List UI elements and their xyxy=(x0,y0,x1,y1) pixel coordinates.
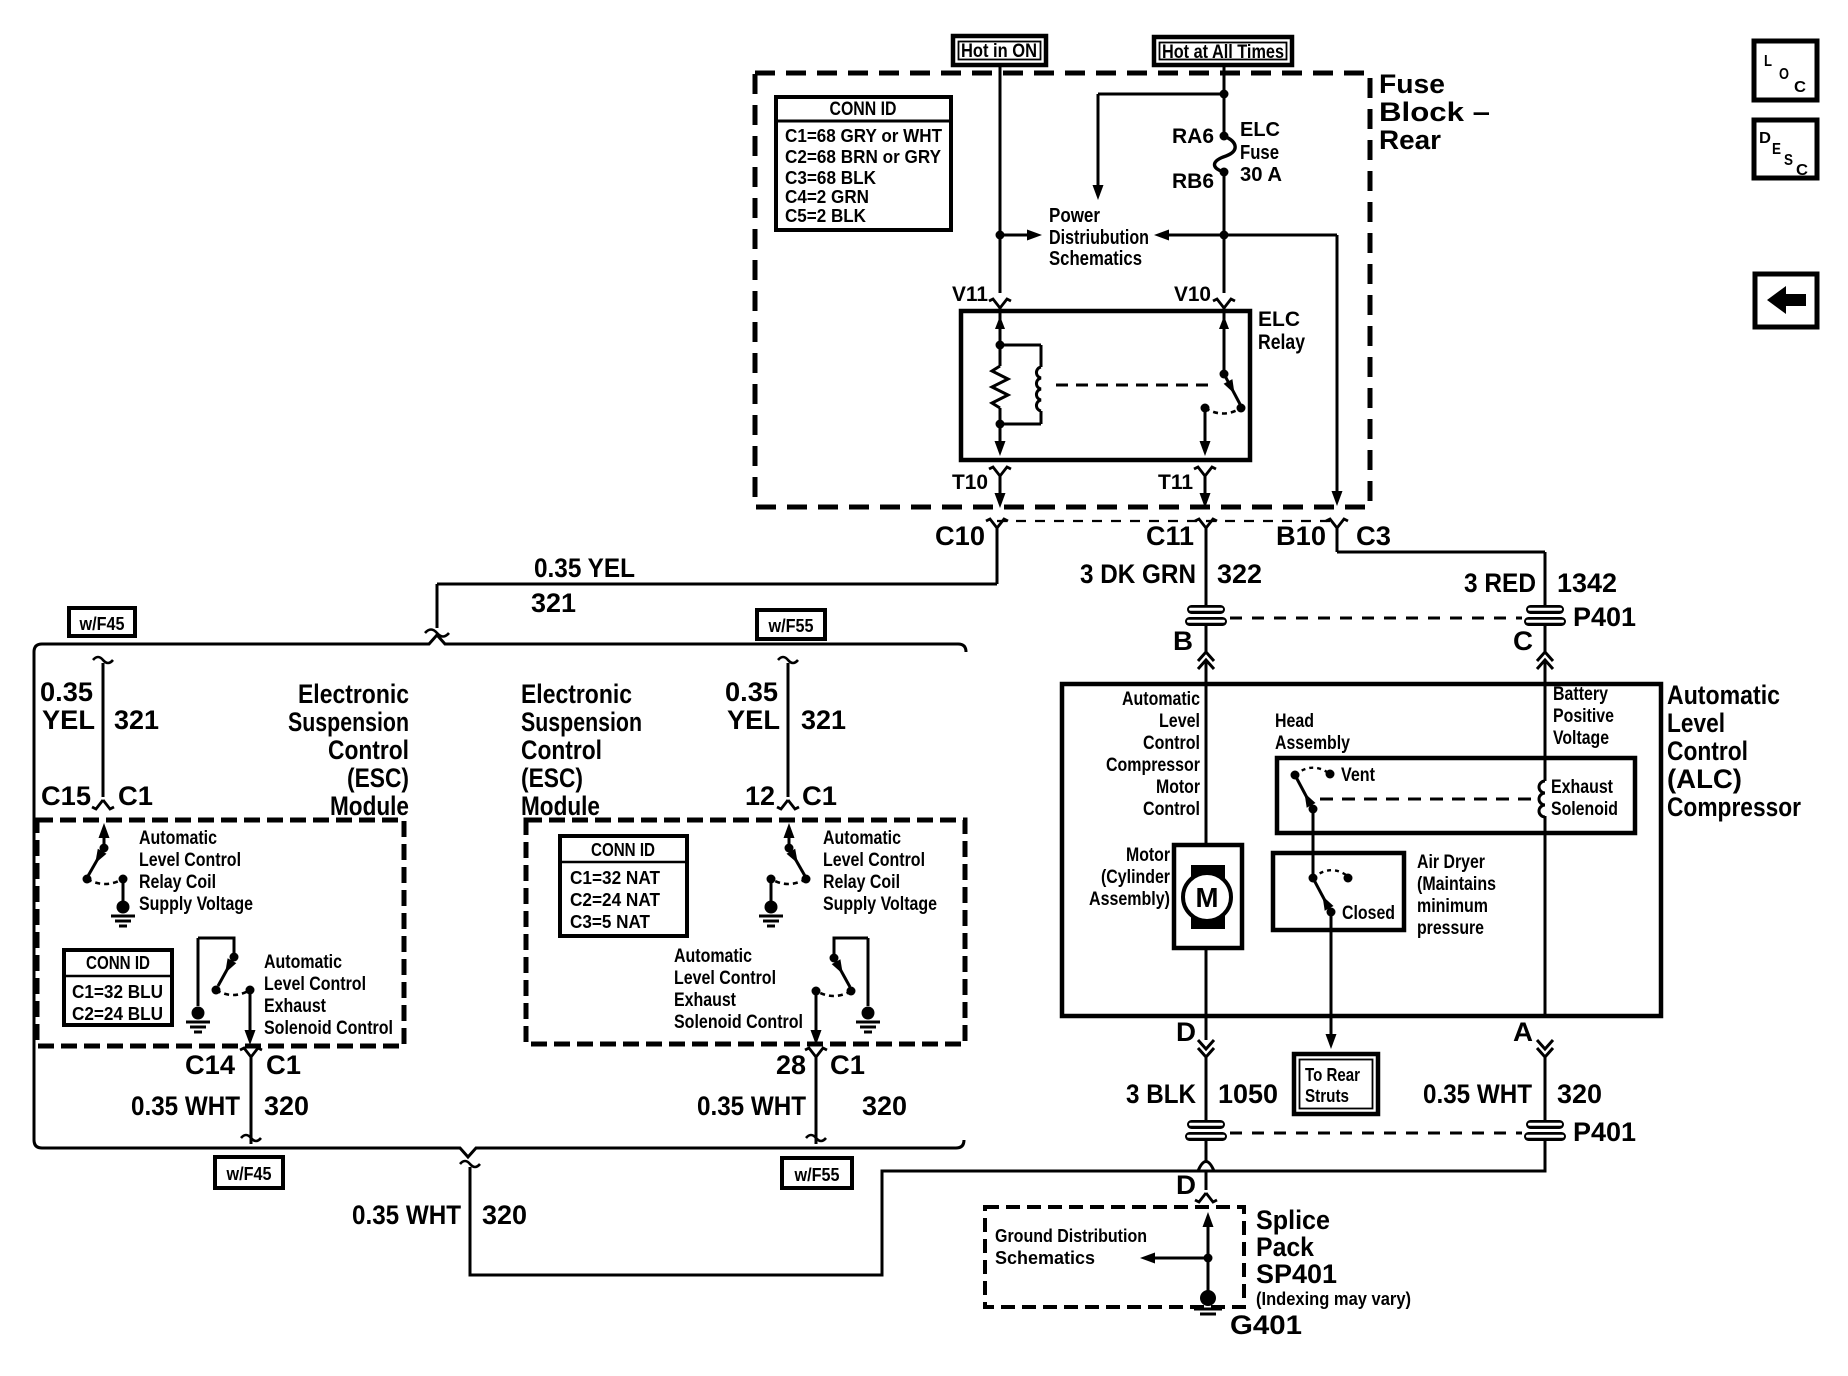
svg-text:C3=5 NAT: C3=5 NAT xyxy=(570,912,650,932)
Hot at All Times box xyxy=(1154,37,1292,65)
svg-text:Compressor: Compressor xyxy=(1667,792,1801,822)
svg-text:SP401: SP401 xyxy=(1256,1259,1337,1289)
svg-text:C: C xyxy=(1794,79,1806,96)
svg-text:C: C xyxy=(1513,626,1533,656)
svg-text:Fuse: Fuse xyxy=(1379,69,1445,99)
switch ALC relay coil supply voltage right module xyxy=(788,836,791,848)
label w/F45 top xyxy=(69,608,135,636)
svg-text:C1=32 BLU: C1=32 BLU xyxy=(72,982,163,1002)
svg-text:w/F45: w/F45 xyxy=(226,1164,272,1184)
wire arrow left into Distriubution xyxy=(1166,234,1224,237)
svg-text:w/F55: w/F55 xyxy=(768,616,814,636)
svg-text:Schematics: Schematics xyxy=(1049,248,1142,270)
svg-text:Level Control: Level Control xyxy=(139,850,241,871)
svg-text:Battery: Battery xyxy=(1553,684,1608,705)
vent contact xyxy=(1326,770,1335,779)
svg-text:3 DK GRN: 3 DK GRN xyxy=(1080,559,1196,589)
svg-text:3 RED: 3 RED xyxy=(1464,568,1536,598)
harness bracket around ESC modules w/F45 w/F55 xyxy=(34,635,966,1157)
inline connector P401 lower right half xyxy=(1526,1120,1564,1129)
svg-text:L: L xyxy=(1764,53,1772,70)
wire 0.35 YEL 321 to left module xyxy=(93,657,113,663)
wire A side down to ground bus xyxy=(1544,1140,1547,1171)
svg-text:P401: P401 xyxy=(1573,1117,1636,1147)
svg-text:P401: P401 xyxy=(1573,602,1636,632)
svg-text:minimum: minimum xyxy=(1417,896,1488,917)
svg-text:Exhaust: Exhaust xyxy=(674,990,737,1011)
svg-text:30 A: 30 A xyxy=(1240,164,1282,186)
wire V11 into relay coil xyxy=(999,308,1002,345)
vent switch dashed travel arc xyxy=(1295,768,1327,775)
svg-text:Pack: Pack xyxy=(1256,1232,1315,1262)
air dryer box xyxy=(1273,853,1404,930)
wire V10 into relay switch common xyxy=(1223,308,1226,374)
svg-text:Motor: Motor xyxy=(1126,845,1171,866)
svg-text:To Rear: To Rear xyxy=(1305,1065,1360,1085)
svg-text:Head: Head xyxy=(1275,711,1314,732)
svg-text:Supply Voltage: Supply Voltage xyxy=(823,894,937,915)
svg-text:CONN ID: CONN ID xyxy=(830,99,897,120)
svg-text:O: O xyxy=(1779,66,1789,83)
switch ALC exhaust solenoid control right module xyxy=(834,938,868,956)
svg-text:Level: Level xyxy=(1667,708,1725,738)
svg-text:Electronic: Electronic xyxy=(521,679,632,709)
wire arrow to ground distribution text xyxy=(1152,1257,1208,1260)
svg-text:321: 321 xyxy=(531,588,576,618)
svg-text:C15: C15 xyxy=(41,781,91,811)
svg-text:Suspension: Suspension xyxy=(521,707,642,737)
svg-text:321: 321 xyxy=(114,705,159,735)
svg-text:Automatic: Automatic xyxy=(674,946,752,967)
svg-text:YEL: YEL xyxy=(42,705,95,735)
svg-text:Electronic: Electronic xyxy=(298,679,409,709)
svg-text:B10: B10 xyxy=(1276,521,1326,551)
svg-text:Solenoid: Solenoid xyxy=(1551,799,1618,820)
dashed link to exhaust solenoid xyxy=(1320,798,1532,801)
svg-text:T10: T10 xyxy=(952,471,988,494)
svg-text:Assembly): Assembly) xyxy=(1089,889,1170,910)
svg-text:1342: 1342 xyxy=(1557,568,1617,598)
air dryer dashed travel arc xyxy=(1313,870,1346,878)
label w/F45 bottom xyxy=(215,1157,283,1188)
svg-text:M: M xyxy=(1196,882,1219,913)
svg-text:Rear: Rear xyxy=(1379,125,1441,155)
relay ELC Relay box xyxy=(961,311,1250,460)
svg-text:YEL: YEL xyxy=(727,705,780,735)
svg-text:C3=68 BLK: C3=68 BLK xyxy=(785,168,876,188)
fuse block dashed enclosure Fuse Block - Rear xyxy=(755,73,1370,507)
wire D side down with crossover hop xyxy=(1205,1140,1208,1162)
coil bottom junction xyxy=(996,420,1005,429)
svg-text:0.35 WHT: 0.35 WHT xyxy=(697,1091,806,1121)
svg-text:1050: 1050 xyxy=(1218,1079,1278,1109)
inline connector P401 upper right half xyxy=(1526,605,1564,614)
coil top junction xyxy=(996,341,1005,350)
svg-text:D: D xyxy=(1759,130,1771,147)
vent switch pivot xyxy=(1291,771,1300,780)
CONN ID box right module xyxy=(560,836,687,936)
svg-text:S: S xyxy=(1784,152,1793,169)
wire motor to D terminal xyxy=(1205,948,1208,1040)
svg-text:Level Control: Level Control xyxy=(674,968,776,989)
svg-text:B: B xyxy=(1173,626,1193,656)
svg-text:0.35 WHT: 0.35 WHT xyxy=(131,1091,240,1121)
svg-text:Voltage: Voltage xyxy=(1553,728,1609,749)
svg-text:Air Dryer: Air Dryer xyxy=(1417,852,1485,873)
svg-text:Level Control: Level Control xyxy=(823,850,925,871)
relay switch pivot xyxy=(1220,370,1229,379)
svg-text:321: 321 xyxy=(801,705,846,735)
CONN ID box left module xyxy=(64,950,172,1025)
svg-text:V10: V10 xyxy=(1174,283,1211,306)
inline connector P401 upper left half xyxy=(1187,605,1225,614)
air dryer switch pivot xyxy=(1309,874,1318,883)
svg-text:C2=24 BLU: C2=24 BLU xyxy=(72,1004,163,1024)
wire Hot in ON down to V11 xyxy=(999,65,1002,293)
switch ALC exhaust solenoid control left module xyxy=(198,938,234,955)
wire into splice pack with up arrow xyxy=(1207,1222,1210,1258)
svg-text:Assembly: Assembly xyxy=(1275,733,1350,754)
svg-text:Solenoid Control: Solenoid Control xyxy=(674,1012,803,1033)
svg-text:Struts: Struts xyxy=(1305,1086,1349,1106)
wire to ground left module lower xyxy=(197,938,200,1006)
wire B10 to C terminal via P401 xyxy=(1336,528,1339,552)
svg-text:320: 320 xyxy=(264,1091,309,1121)
svg-text:Motor: Motor xyxy=(1156,777,1201,798)
vent switch arm xyxy=(1296,777,1313,809)
svg-text:0.35 WHT: 0.35 WHT xyxy=(352,1200,461,1230)
svg-text:CONN ID: CONN ID xyxy=(86,953,150,973)
svg-text:Automatic: Automatic xyxy=(823,828,901,849)
svg-text:RB6: RB6 xyxy=(1172,170,1214,193)
icon LOC box xyxy=(1754,41,1817,100)
switch ALC relay coil supply voltage left module xyxy=(103,836,106,848)
svg-text:Control: Control xyxy=(1143,799,1200,820)
wire to ground right module lower xyxy=(867,938,870,1006)
splice pack ground distribution dashed box xyxy=(985,1207,1244,1307)
wire 0.35 WHT 320 common ground run xyxy=(460,1161,480,1167)
svg-text:Closed: Closed xyxy=(1342,903,1395,924)
svg-text:T11: T11 xyxy=(1158,471,1193,494)
svg-text:w/F55: w/F55 xyxy=(794,1165,840,1185)
air dryer switch arm to Closed contact xyxy=(1314,880,1331,912)
svg-text:C1: C1 xyxy=(118,781,153,811)
svg-text:D: D xyxy=(1176,1017,1196,1047)
wire right to B10 drop xyxy=(1224,234,1337,237)
svg-text:C1: C1 xyxy=(802,781,837,811)
svg-text:C1: C1 xyxy=(830,1050,865,1080)
svg-text:Level Control: Level Control xyxy=(264,974,366,995)
svg-text:C3: C3 xyxy=(1356,521,1391,551)
To Rear Struts box xyxy=(1294,1054,1378,1114)
inline connector P401 lower left half xyxy=(1187,1120,1225,1129)
svg-text:12: 12 xyxy=(745,781,775,811)
svg-text:RA6: RA6 xyxy=(1172,125,1214,148)
dashed link P401 bottom xyxy=(1230,1132,1522,1135)
inductor winding parallel branch xyxy=(1000,344,1041,347)
wire 0.35 YEL 321 to right module xyxy=(778,657,798,663)
left ESC module dashed box xyxy=(37,820,404,1046)
svg-text:Module: Module xyxy=(330,791,409,821)
svg-text:C4=2 GRN: C4=2 GRN xyxy=(785,187,869,207)
svg-text:0.35: 0.35 xyxy=(40,677,93,707)
svg-text:Vent: Vent xyxy=(1341,765,1376,786)
svg-text:Solenoid Control: Solenoid Control xyxy=(264,1018,393,1039)
svg-text:C1=68 GRY or WHT: C1=68 GRY or WHT xyxy=(785,126,942,146)
junction below fuse xyxy=(1220,231,1229,240)
wire 0.35 YEL 321 horizontal run xyxy=(437,583,997,586)
svg-text:Supply Voltage: Supply Voltage xyxy=(139,894,253,915)
svg-text:Automatic: Automatic xyxy=(1667,680,1780,710)
svg-text:ELC: ELC xyxy=(1240,119,1280,141)
svg-text:Ground Distribution: Ground Distribution xyxy=(995,1226,1147,1246)
svg-text:C2=24 NAT: C2=24 NAT xyxy=(570,890,660,910)
svg-text:A: A xyxy=(1513,1017,1533,1047)
svg-text:3 BLK: 3 BLK xyxy=(1126,1079,1196,1109)
svg-text:Splice: Splice xyxy=(1256,1205,1330,1235)
icon DESC box xyxy=(1754,120,1817,178)
svg-text:Suspension: Suspension xyxy=(288,707,409,737)
svg-text:Relay Coil: Relay Coil xyxy=(139,872,216,893)
svg-text:Schematics: Schematics xyxy=(995,1248,1095,1268)
relay switch contact xyxy=(1201,404,1210,413)
svg-text:E: E xyxy=(1772,141,1781,158)
svg-text:320: 320 xyxy=(482,1200,527,1230)
svg-text:Relay: Relay xyxy=(1258,331,1305,354)
svg-text:C5=2 BLK: C5=2 BLK xyxy=(785,206,866,226)
svg-text:0.35 WHT: 0.35 WHT xyxy=(1423,1079,1532,1109)
svg-text:Control: Control xyxy=(1143,733,1200,754)
resistor element of relay coil xyxy=(999,345,1002,366)
harness break at bracket top center xyxy=(425,630,449,637)
fuse ELC Fuse 30 A with RA6 RB6 terminals xyxy=(1220,132,1229,141)
component Automatic Level Control ALC Compressor box xyxy=(1062,684,1661,1016)
svg-text:C1: C1 xyxy=(266,1050,301,1080)
svg-text:Positive: Positive xyxy=(1553,706,1614,727)
ground inside left module upper xyxy=(117,901,130,914)
dashed link P401 top xyxy=(1230,617,1522,620)
Hot in ON box xyxy=(953,36,1046,65)
wire air dryer to rear struts xyxy=(1330,912,1333,1034)
svg-text:Exhaust: Exhaust xyxy=(264,996,327,1017)
svg-text:320: 320 xyxy=(862,1091,907,1121)
relay switch arm xyxy=(1224,374,1241,406)
svg-text:0.35 YEL: 0.35 YEL xyxy=(534,553,635,583)
svg-text:C: C xyxy=(1796,162,1808,179)
dashed actuation link relay xyxy=(1056,384,1214,387)
svg-text:Block –: Block – xyxy=(1379,97,1490,127)
svg-text:G401: G401 xyxy=(1230,1310,1302,1340)
ground G401 xyxy=(1200,1290,1216,1306)
svg-text:Hot in ON: Hot in ON xyxy=(961,41,1037,62)
svg-text:Relay Coil: Relay Coil xyxy=(823,872,900,893)
wire to G401 xyxy=(1207,1258,1210,1291)
wire battery feed through compressor xyxy=(1544,816,1547,1016)
svg-text:Control: Control xyxy=(328,735,409,765)
wire RB6 down to V10 xyxy=(1223,172,1226,293)
svg-text:C2=68 BRN or GRY: C2=68 BRN or GRY xyxy=(785,147,941,167)
right ESC module dashed box xyxy=(526,820,965,1044)
svg-text:D: D xyxy=(1176,1170,1196,1200)
solenoid Exhaust Solenoid coil xyxy=(1539,781,1545,817)
svg-text:Fuse: Fuse xyxy=(1240,142,1279,164)
svg-text:C11: C11 xyxy=(1146,521,1194,551)
svg-text:Hot at All Times: Hot at All Times xyxy=(1162,42,1284,63)
wire vent arm to air dryer switch xyxy=(1312,809,1315,878)
svg-text:Power: Power xyxy=(1049,205,1100,227)
svg-text:Control: Control xyxy=(521,735,602,765)
svg-text:CONN ID: CONN ID xyxy=(591,840,655,860)
wire branch left to power distribution down-arrow xyxy=(1098,93,1224,96)
svg-text:0.35: 0.35 xyxy=(725,677,778,707)
wire contact to T11 with arrow xyxy=(1204,408,1207,445)
junction at top of fused feed xyxy=(1220,90,1229,99)
label w/F55 top xyxy=(757,610,825,639)
svg-text:Automatic: Automatic xyxy=(264,952,342,973)
ground inside right module upper xyxy=(765,901,778,914)
svg-text:28: 28 xyxy=(776,1050,806,1080)
wire coil to T10 with arrow xyxy=(999,424,1002,445)
svg-text:Compressor: Compressor xyxy=(1106,755,1201,776)
label w/F55 bottom xyxy=(782,1158,852,1188)
svg-text:pressure: pressure xyxy=(1417,918,1484,939)
svg-text:Control: Control xyxy=(1667,736,1748,766)
wire Hot at All Times down xyxy=(1223,65,1226,136)
svg-text:Automatic: Automatic xyxy=(139,828,217,849)
svg-text:C1=32 NAT: C1=32 NAT xyxy=(570,868,660,888)
svg-text:ELC: ELC xyxy=(1258,308,1300,331)
svg-text:(Cylinder: (Cylinder xyxy=(1101,867,1170,888)
junction in splice pack xyxy=(1204,1254,1213,1263)
svg-text:(ALC): (ALC) xyxy=(1667,764,1742,794)
svg-text:C10: C10 xyxy=(935,521,985,551)
head assembly box xyxy=(1277,758,1635,833)
svg-text:w/F45: w/F45 xyxy=(79,614,125,634)
junction node on Hot-in-ON wire xyxy=(996,231,1005,240)
svg-text:(ESC): (ESC) xyxy=(347,763,409,793)
svg-text:Module: Module xyxy=(521,791,600,821)
CONN ID box fuse block xyxy=(776,97,951,230)
svg-text:Level: Level xyxy=(1159,711,1200,732)
svg-text:(ESC): (ESC) xyxy=(521,763,583,793)
svg-text:Distriubution: Distriubution xyxy=(1049,227,1149,249)
ground inside left module lower xyxy=(192,1007,205,1020)
svg-text:C14: C14 xyxy=(185,1050,235,1080)
svg-text:Automatic: Automatic xyxy=(1122,689,1200,710)
svg-text:(Maintains: (Maintains xyxy=(1417,874,1496,895)
ground inside right module lower xyxy=(862,1007,875,1020)
svg-text:V11: V11 xyxy=(952,283,988,306)
svg-text:Exhaust: Exhaust xyxy=(1551,777,1614,798)
icon back arrow box xyxy=(1755,274,1817,327)
inline connector dashed link C10-C11-B10 xyxy=(997,520,1337,522)
svg-text:320: 320 xyxy=(1557,1079,1602,1109)
svg-text:322: 322 xyxy=(1217,559,1262,589)
wire branch arrow to Power Distribution text xyxy=(1000,234,1030,237)
svg-text:(Indexing may vary): (Indexing may vary) xyxy=(1256,1289,1411,1309)
